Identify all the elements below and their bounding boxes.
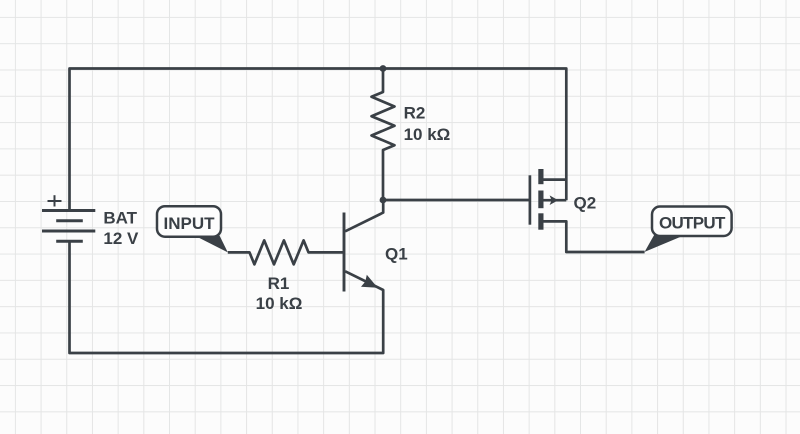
- flag INPUT tail: [193, 235, 228, 253]
- transistor Q1 emitter arrow: [361, 275, 378, 288]
- wire bottom rail, battery bottom, Q1 emitter vertical: [70, 241, 384, 353]
- flag INPUT box: [157, 206, 221, 237]
- transistor Q2 channel dashes: [538, 169, 543, 184]
- transistor Q1 base bar: [343, 213, 346, 292]
- svg-text:INPUT: INPUT: [164, 214, 216, 233]
- transistor Q2 gate bar: [529, 175, 532, 224]
- transistor Q2 body arrow: [550, 195, 559, 205]
- wire node to Q2 gate: [383, 199, 530, 202]
- wire Q2 source to output: [544, 221, 645, 252]
- resistor R2: [372, 69, 395, 200]
- svg-text:12 V: 12 V: [103, 229, 139, 248]
- svg-text:OUTPUT: OUTPUT: [659, 214, 726, 233]
- wire Q2 drain stub: [544, 178, 567, 181]
- svg-text:10 kΩ: 10 kΩ: [404, 125, 451, 144]
- svg-text:R1: R1: [268, 274, 290, 293]
- wire top rail and left vertical and Q2 drain: [70, 69, 567, 211]
- battery BAT plates: [42, 211, 95, 242]
- svg-text:R2: R2: [404, 104, 426, 123]
- transistor Q2 body line: [544, 199, 567, 202]
- node junction dot middle: [380, 197, 387, 204]
- wire Q1 collector: [345, 200, 383, 231]
- svg-text:Q2: Q2: [574, 193, 597, 212]
- svg-text:BAT: BAT: [103, 208, 137, 227]
- resistor R1: [228, 240, 344, 264]
- svg-text:Q1: Q1: [385, 244, 408, 263]
- flag OUTPUT box: [652, 207, 732, 237]
- svg-text:10 kΩ: 10 kΩ: [256, 294, 303, 313]
- node junction dot top: [380, 65, 387, 72]
- flag OUTPUT tail: [645, 235, 687, 252]
- battery plus sign: [48, 195, 62, 206]
